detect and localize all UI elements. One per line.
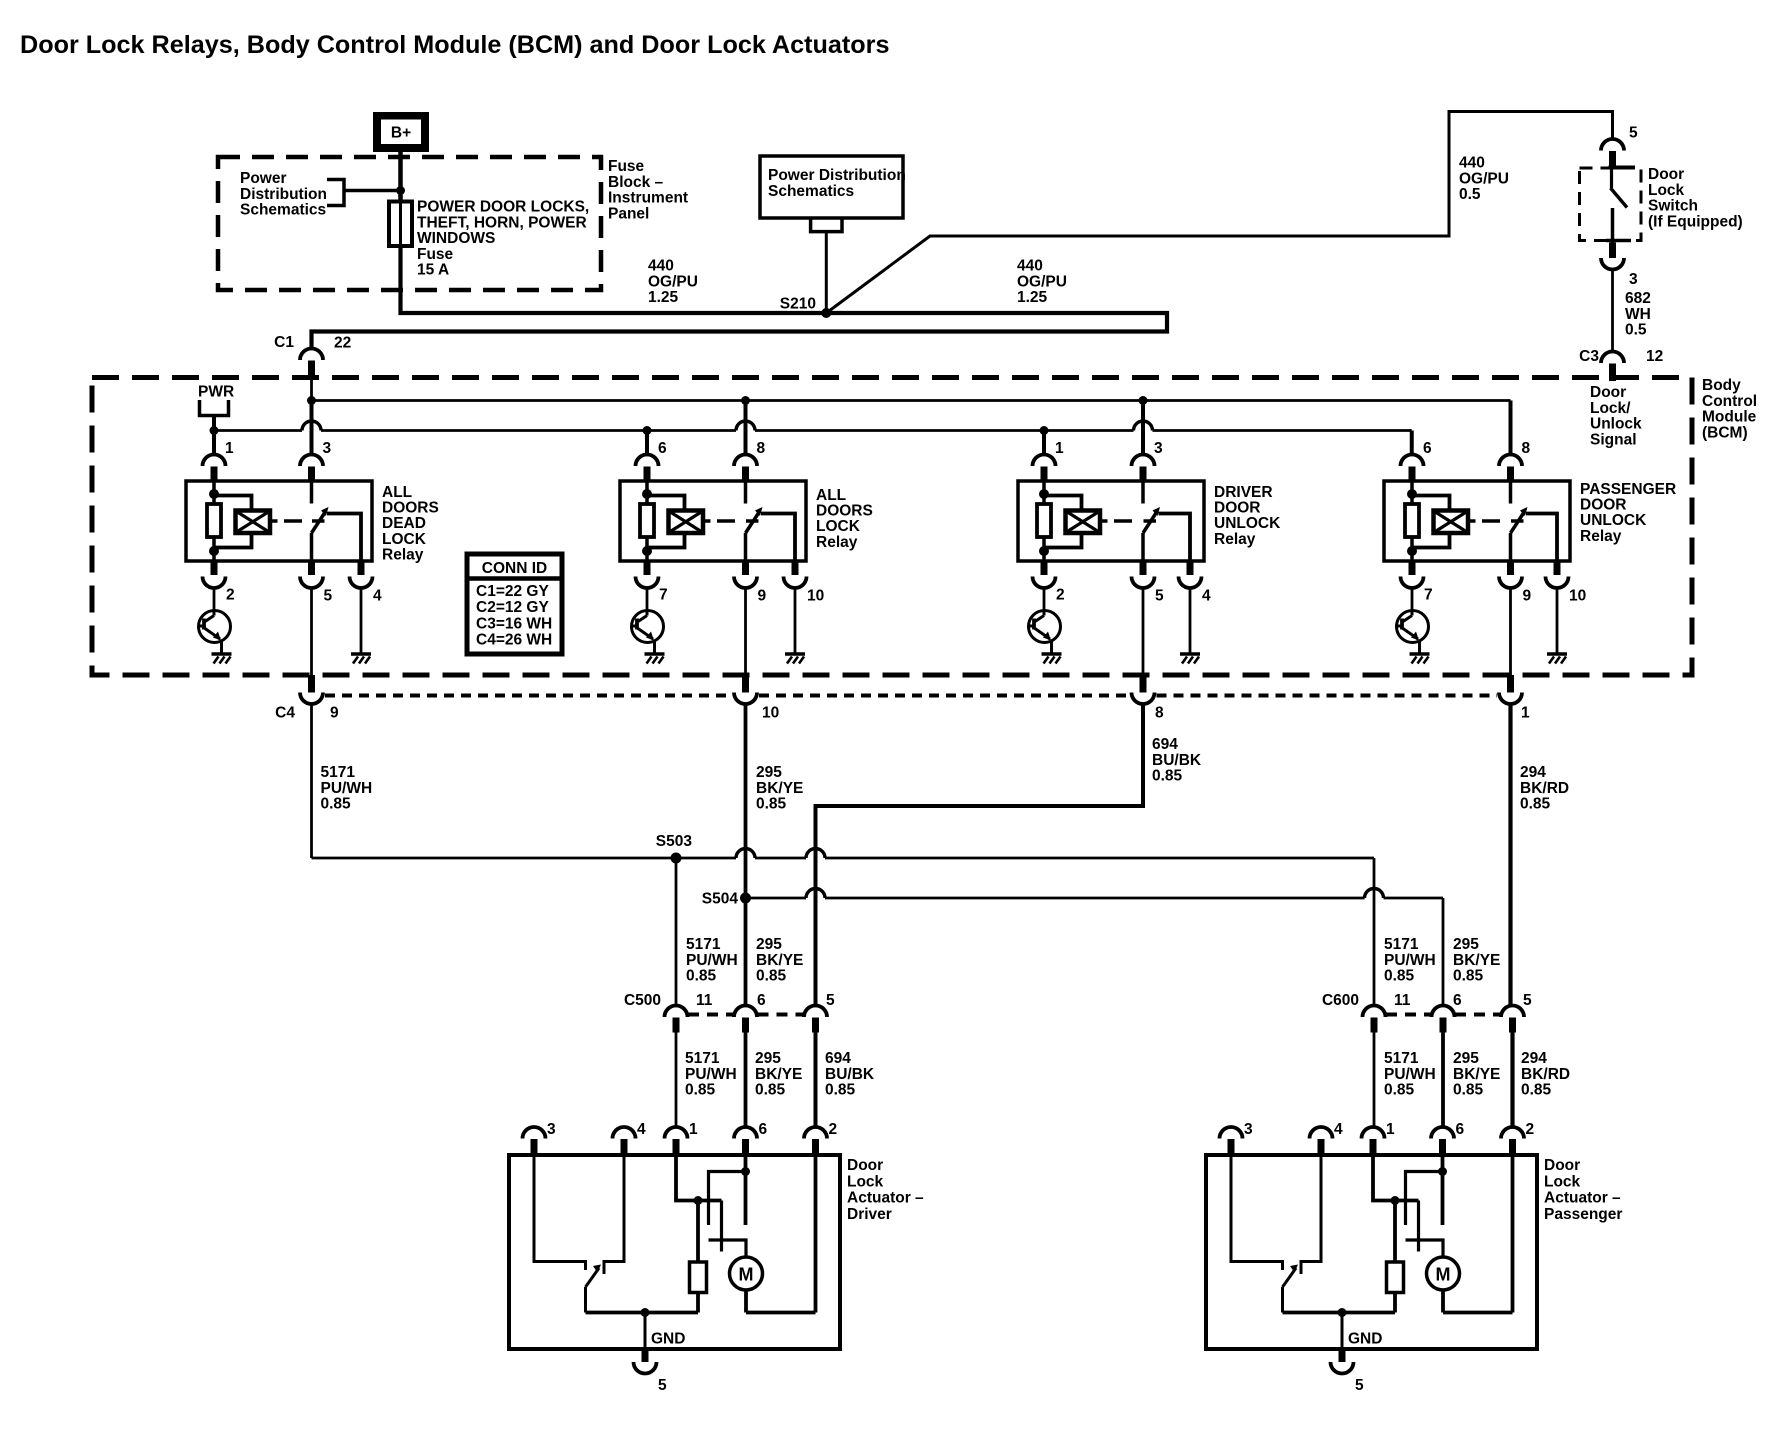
- svg-text:PU/WH: PU/WH: [1384, 952, 1436, 969]
- relay K1 all doors dead lock relay box: [186, 481, 372, 561]
- relay K1 contact ground wire: [360, 587, 363, 654]
- svg-text:Relay: Relay: [816, 534, 858, 551]
- svg-text:Block –: Block –: [608, 174, 664, 191]
- svg-text:5171: 5171: [1384, 936, 1419, 953]
- relay K2 switch fixed contact: [744, 481, 748, 504]
- all doors lock relay pin 6 connector: [636, 455, 659, 467]
- relay K4 passenger door unlock relay box: [1384, 481, 1570, 561]
- svg-text:0.85: 0.85: [755, 1082, 786, 1099]
- svg-text:4: 4: [1202, 588, 1211, 605]
- connector C1 pin 22: [300, 349, 323, 361]
- driver door lock actuator transistor collector: [534, 1155, 586, 1270]
- passenger door lock actuator feed wire from pin 1: [1373, 1155, 1419, 1201]
- svg-text:C1: C1: [274, 334, 294, 351]
- svg-text:9: 9: [1523, 588, 1532, 605]
- passenger door unlock relay pin 6 connector: [1401, 455, 1424, 467]
- svg-text:C4=26 WH: C4=26 WH: [476, 632, 552, 649]
- connector C600 dashed line: [1386, 1013, 1431, 1017]
- relay K2 coil loop: [647, 496, 685, 548]
- svg-text:UNLOCK: UNLOCK: [1214, 515, 1281, 532]
- relay K3 switch fixed contact: [1141, 481, 1145, 504]
- svg-text:C4: C4: [275, 705, 295, 722]
- wire C500-5 to actuator: [814, 1033, 818, 1128]
- relay K1 coil wire: [212, 481, 216, 504]
- wire 694 BU/BK from C4-8: [816, 704, 1144, 1006]
- connector C600 pin 5: [1501, 1006, 1524, 1018]
- svg-text:11: 11: [696, 992, 713, 1009]
- wire C600-6 to actuator: [1441, 1033, 1445, 1128]
- wire 440 OG/PU from fuse to C1 (with return loop): [312, 246, 1168, 349]
- junction dot at fuse top: [396, 186, 405, 195]
- svg-text:294: 294: [1521, 1050, 1547, 1067]
- svg-text:2: 2: [1526, 1121, 1535, 1138]
- svg-text:6: 6: [1453, 992, 1462, 1009]
- wire C600-5 to actuator: [1510, 1033, 1514, 1128]
- svg-text:694: 694: [825, 1050, 851, 1067]
- svg-text:Driver: Driver: [847, 1206, 892, 1223]
- svg-text:Door Lock Relays, Body Control: Door Lock Relays, Body Control Module (B…: [20, 31, 890, 59]
- connector C600 pin 6: [1432, 1006, 1455, 1018]
- wire bus B to K2 pin 6: [645, 431, 649, 455]
- relay K3 actuation dashed link: [1114, 519, 1132, 523]
- passenger door lock actuator pin 4 connector: [1310, 1127, 1333, 1139]
- svg-text:0.85: 0.85: [1453, 968, 1484, 985]
- relay K4 actuation dashed link: [1482, 519, 1500, 523]
- svg-text:BK/YE: BK/YE: [756, 952, 803, 969]
- BCM door lock feed bus (upper): [312, 399, 1511, 402]
- relay K3 driver transistor Q: [1029, 611, 1061, 643]
- relay K3 coil junction dots: [1039, 489, 1049, 499]
- svg-text:1: 1: [689, 1121, 698, 1138]
- relay K2 switch blade: [746, 512, 760, 534]
- wire bus A to K4 pin 8: [1509, 401, 1513, 455]
- svg-text:DOORS: DOORS: [816, 503, 873, 520]
- bracket below power distribution box: [811, 218, 842, 232]
- svg-text:694: 694: [1152, 736, 1178, 753]
- svg-text:1: 1: [1055, 440, 1064, 457]
- driver door lock actuator transistor base: [604, 1155, 624, 1274]
- svg-text:5: 5: [1355, 1377, 1364, 1394]
- svg-text:Body: Body: [1702, 377, 1741, 394]
- PWR bracket: [200, 400, 229, 416]
- svg-text:0.85: 0.85: [685, 1082, 716, 1099]
- relay K3 driver door unlock relay box: [1018, 481, 1204, 561]
- svg-text:DOORS: DOORS: [382, 500, 439, 517]
- wire bus B to K1 pin 1: [212, 431, 216, 455]
- driver door lock actuator ground pin 5 connector: [642, 1349, 649, 1362]
- svg-text:Power: Power: [240, 170, 287, 187]
- svg-text:0.85: 0.85: [1152, 768, 1183, 785]
- relay K4 driver transistor Q: [1397, 611, 1429, 643]
- all doors lock relay pin 8 connector: [734, 455, 757, 467]
- junction dot bus A at relay K3: [1139, 396, 1148, 405]
- svg-text:6: 6: [1423, 440, 1432, 457]
- passenger door unlock relay pin 10 connector: [1554, 561, 1561, 575]
- relay K2 transistor ground: [645, 652, 665, 656]
- svg-text:Switch: Switch: [1648, 198, 1698, 215]
- svg-text:Module: Module: [1702, 409, 1757, 426]
- svg-text:PU/WH: PU/WH: [1384, 1066, 1436, 1083]
- svg-text:(If Equipped): (If Equipped): [1648, 213, 1743, 230]
- relay K2 contact ground wire: [794, 587, 797, 654]
- driver door lock actuator motor ground wire: [744, 1290, 748, 1313]
- passenger door lock actuator bottom rail left: [1283, 1311, 1396, 1315]
- door lock switch fixed terminal: [1610, 168, 1613, 189]
- svg-text:WH: WH: [1625, 306, 1651, 323]
- svg-text:Lock: Lock: [847, 1173, 884, 1190]
- svg-text:BK/YE: BK/YE: [1453, 952, 1500, 969]
- driver door lock actuator pin 1 connector: [665, 1127, 688, 1139]
- relay K3 contact ground: [1180, 652, 1200, 656]
- svg-text:295: 295: [1453, 1050, 1479, 1067]
- passenger door lock actuator ground pin 5 connector: [1339, 1349, 1346, 1362]
- door lock switch pin 5 connector: [1601, 139, 1624, 151]
- svg-text:3: 3: [1154, 440, 1163, 457]
- CONN ID table: [467, 554, 562, 654]
- svg-text:M: M: [739, 1265, 754, 1285]
- svg-text:3: 3: [323, 440, 332, 457]
- svg-text:GND: GND: [651, 1331, 685, 1348]
- driver door lock actuator bottom rail left: [586, 1311, 699, 1315]
- wire 295 BK/YE from C4-10: [744, 704, 748, 1006]
- passenger door lock actuator pin 2 wire: [1511, 1155, 1515, 1313]
- svg-text:BU/BK: BU/BK: [825, 1066, 875, 1083]
- door lock switch blade: [1611, 188, 1628, 208]
- svg-text:1: 1: [1521, 705, 1530, 722]
- relay K1 transistor ground: [212, 652, 232, 656]
- svg-text:PU/WH: PU/WH: [686, 952, 738, 969]
- svg-text:0.85: 0.85: [1520, 796, 1551, 813]
- passenger door lock actuator switch contact B: [1406, 1172, 1443, 1226]
- svg-text:Schematics: Schematics: [768, 183, 854, 200]
- relay K4 switch blade: [1511, 512, 1525, 534]
- relay K4 coil element: [1405, 504, 1419, 537]
- driver door lock actuator box: [509, 1155, 840, 1349]
- svg-text:295: 295: [1453, 936, 1479, 953]
- door lock switch dashed box: [1580, 168, 1642, 241]
- svg-text:0.5: 0.5: [1625, 322, 1647, 339]
- svg-text:BK/YE: BK/YE: [1453, 1066, 1500, 1083]
- svg-text:C1=22 GY: C1=22 GY: [476, 583, 549, 600]
- passenger door lock actuator pin 1 connector: [1362, 1127, 1385, 1139]
- relay K1 switch blade: [312, 512, 326, 534]
- wire 5171 branch to C500-11: [675, 858, 678, 1006]
- wire hop S504 line over 5171: [1365, 889, 1384, 899]
- splice S504: [740, 893, 751, 904]
- wire power distribution stem to S210: [825, 232, 828, 313]
- connector C4 pin 9: [310, 587, 313, 675]
- svg-text:8: 8: [757, 440, 766, 457]
- relay K3 actuator crossed box: [1066, 511, 1101, 534]
- passenger door lock actuator ground pin wire: [1341, 1313, 1344, 1350]
- junction dot PWR on bus: [210, 426, 219, 435]
- svg-text:BK/YE: BK/YE: [755, 1066, 802, 1083]
- svg-text:ALL: ALL: [816, 487, 846, 504]
- svg-text:Lock: Lock: [1648, 182, 1685, 199]
- relay K3 switch NO contact wire: [1159, 514, 1191, 562]
- svg-text:5: 5: [324, 588, 333, 605]
- relay K2 all doors lock relay box: [620, 481, 806, 561]
- passenger door lock actuator bottom rail right: [1443, 1311, 1513, 1315]
- driver door lock actuator pin 2 wire: [814, 1155, 818, 1313]
- svg-text:Door: Door: [847, 1157, 883, 1174]
- svg-text:BK/RD: BK/RD: [1520, 780, 1569, 797]
- svg-text:5171: 5171: [321, 764, 356, 781]
- wire hop K3 pin3 over PWR bus: [1134, 421, 1153, 431]
- relay K1 switch NO contact wire: [327, 514, 361, 562]
- BCM PWR bus (lower): [214, 429, 302, 432]
- relay K1 coil loop: [214, 496, 252, 548]
- passenger door lock actuator switch contact A: [1417, 1201, 1420, 1252]
- svg-text:10: 10: [762, 705, 779, 722]
- connector C600 pin 11: [1363, 1006, 1386, 1018]
- svg-text:Fuse: Fuse: [608, 158, 645, 175]
- all doors dead lock relay pin 4 connector: [358, 561, 365, 575]
- svg-text:PU/WH: PU/WH: [321, 780, 373, 797]
- svg-text:Unlock: Unlock: [1590, 416, 1642, 433]
- passenger door lock actuator pin 3 connector: [1220, 1127, 1243, 1139]
- wire B+ to fuse: [398, 152, 403, 202]
- svg-text:1.25: 1.25: [1017, 289, 1048, 306]
- connector C500 pin 5: [804, 1006, 827, 1018]
- svg-text:DOOR: DOOR: [1580, 497, 1627, 514]
- driver door lock actuator pin 6 connector: [734, 1127, 757, 1139]
- svg-text:Fuse: Fuse: [417, 246, 454, 263]
- relay K4 coil loop: [1412, 496, 1450, 548]
- relay K1 driver wire: [213, 587, 216, 611]
- passenger door unlock relay pin 8 connector: [1499, 455, 1522, 467]
- svg-text:5: 5: [658, 1377, 667, 1394]
- svg-text:10: 10: [1569, 588, 1586, 605]
- driver door unlock relay pin 4 connector: [1187, 561, 1194, 575]
- relay K2 driver transistor Q: [632, 611, 664, 643]
- svg-text:10: 10: [807, 588, 824, 605]
- passenger door lock actuator switch bar: [1406, 1240, 1444, 1258]
- svg-text:12: 12: [1646, 348, 1663, 365]
- svg-text:POWER DOOR LOCKS,: POWER DOOR LOCKS,: [417, 199, 589, 216]
- driver door lock actuator pin 2 connector: [804, 1127, 827, 1139]
- passenger door lock actuator motor ground wire: [1441, 1290, 1445, 1313]
- svg-text:4: 4: [373, 588, 382, 605]
- wire bus B to K3 pin 1: [1042, 431, 1046, 455]
- relay K3 transistor ground: [1042, 652, 1062, 656]
- svg-text:295: 295: [756, 936, 782, 953]
- relay K1 actuator crossed box: [236, 511, 271, 534]
- svg-text:0.85: 0.85: [1384, 1082, 1415, 1099]
- passenger door lock actuator resistor: [1387, 1262, 1404, 1293]
- relay K4 driver wire: [1411, 587, 1414, 611]
- power distribution schematics box: [760, 156, 903, 218]
- svg-text:2: 2: [226, 587, 235, 604]
- svg-text:UNLOCK: UNLOCK: [1580, 512, 1647, 529]
- driver door unlock relay pin 5 connector: [1140, 561, 1147, 575]
- wire S504 branch to passenger: [746, 897, 807, 900]
- svg-text:8: 8: [1155, 705, 1164, 722]
- passenger door lock actuator junction dot pin6: [1438, 1167, 1447, 1176]
- all doors dead lock relay pin 3 connector: [300, 455, 323, 467]
- driver door lock actuator resistor: [690, 1262, 707, 1293]
- passenger door lock actuator transistor collector: [1231, 1155, 1283, 1270]
- svg-text:9: 9: [758, 588, 767, 605]
- relay K4 switch NO contact wire: [1526, 514, 1557, 562]
- connector C500 dashed line: [688, 1013, 734, 1017]
- relay K2 switch common wire: [744, 533, 748, 561]
- all doors lock relay pin 10 connector: [792, 561, 799, 575]
- svg-text:M: M: [1436, 1265, 1451, 1285]
- wire C500-6 to actuator: [744, 1033, 748, 1128]
- svg-text:295: 295: [755, 1050, 781, 1067]
- svg-text:Signal: Signal: [1590, 431, 1637, 448]
- bracket to power distribution note: [327, 180, 344, 206]
- junction dot bus A at C1: [307, 396, 316, 405]
- svg-text:6: 6: [759, 1121, 768, 1138]
- relay K2 actuator crossed box: [669, 511, 704, 534]
- driver door lock actuator feed wire from pin 1: [676, 1155, 722, 1201]
- door lock switch top contact: [1609, 166, 1636, 170]
- passenger door lock actuator junction dot pin1: [1391, 1196, 1400, 1205]
- svg-text:C3: C3: [1579, 348, 1599, 365]
- relay K4 coil wire: [1410, 481, 1414, 504]
- svg-text:C600: C600: [1322, 992, 1359, 1009]
- svg-text:BK/RD: BK/RD: [1521, 1066, 1570, 1083]
- svg-text:1: 1: [1386, 1121, 1395, 1138]
- driver door lock actuator pin 3 connector: [523, 1127, 546, 1139]
- wire C600-11 to actuator: [1373, 1033, 1376, 1128]
- svg-text:0.85: 0.85: [686, 968, 717, 985]
- svg-text:Panel: Panel: [608, 205, 649, 222]
- passenger door lock actuator motor M: [1427, 1257, 1460, 1290]
- relay K4 transistor ground: [1410, 652, 1430, 656]
- connector C3 pin 12: [1601, 352, 1624, 364]
- passenger door lock actuator box: [1206, 1155, 1537, 1349]
- svg-text:S504: S504: [702, 891, 739, 908]
- svg-text:WINDOWS: WINDOWS: [417, 230, 495, 247]
- driver door lock actuator switch contact B: [709, 1172, 746, 1226]
- wire C500-11 to actuator: [675, 1033, 678, 1128]
- svg-text:3: 3: [547, 1121, 556, 1138]
- wire bus A to K1 pin 3: [310, 401, 314, 455]
- driver door lock actuator junction dot pin6: [741, 1167, 750, 1176]
- svg-text:5: 5: [1155, 588, 1164, 605]
- junction dot bus B at relay K3: [1040, 426, 1049, 435]
- svg-text:5171: 5171: [685, 1050, 720, 1067]
- driver door lock actuator motor M: [730, 1257, 763, 1290]
- driver door unlock relay pin 2 connector: [1041, 561, 1048, 575]
- driver door lock actuator switch bar: [709, 1240, 747, 1258]
- relay K2 coil element: [640, 504, 654, 537]
- passenger door unlock relay pin 9 connector: [1507, 561, 1514, 575]
- svg-text:Door: Door: [1648, 166, 1684, 183]
- all doors lock relay pin 7 connector: [644, 561, 651, 575]
- svg-text:3: 3: [1629, 271, 1638, 288]
- relay K2 coil wire: [645, 481, 649, 504]
- svg-text:OG/PU: OG/PU: [1017, 273, 1067, 290]
- splice S210: [821, 308, 831, 318]
- connector C4 pin 1: [1509, 587, 1512, 675]
- wire 5171 PU/WH from C4-9: [310, 704, 313, 858]
- wire hop K1 pin3 over PWR bus: [302, 421, 321, 431]
- relay K3 switch blade: [1143, 512, 1157, 534]
- driver door lock actuator switch contact A: [720, 1201, 723, 1252]
- connector C500 pin 11: [665, 1006, 688, 1018]
- svg-text:2: 2: [829, 1121, 838, 1138]
- svg-text:BK/YE: BK/YE: [756, 780, 803, 797]
- svg-text:C2=12 GY: C2=12 GY: [476, 599, 549, 616]
- passenger door lock actuator pin 6 wire: [1441, 1155, 1445, 1225]
- wire PWR stem: [212, 416, 216, 431]
- relay K4 contact ground wire: [1556, 587, 1559, 654]
- connector C500 pin 6: [734, 1006, 757, 1018]
- svg-text:4: 4: [1334, 1121, 1343, 1138]
- fuse F 15A: [389, 202, 412, 247]
- svg-text:5: 5: [826, 992, 835, 1009]
- driver door lock actuator pin 4 connector: [613, 1127, 636, 1139]
- svg-text:Passenger: Passenger: [1544, 1206, 1622, 1223]
- wire hop S503 line over 694: [806, 849, 825, 859]
- svg-text:0.85: 0.85: [321, 796, 352, 813]
- relay K1 coil element: [207, 504, 221, 537]
- door lock switch lower terminal: [1611, 208, 1615, 243]
- svg-text:1.25: 1.25: [648, 289, 679, 306]
- wire bus A to K2 pin 8: [744, 401, 748, 455]
- relay K4 actuator crossed box: [1434, 511, 1469, 534]
- svg-text:B+: B+: [391, 125, 411, 142]
- wire hop S503 line over 295: [736, 849, 755, 859]
- svg-text:682: 682: [1625, 290, 1651, 307]
- svg-text:440: 440: [1459, 155, 1485, 172]
- relay K3 coil loop: [1044, 496, 1082, 548]
- svg-text:15 A: 15 A: [417, 262, 449, 279]
- wire hop S504 line over 694: [806, 889, 825, 899]
- splice S503: [671, 853, 682, 864]
- svg-text:DOOR: DOOR: [1214, 500, 1261, 517]
- svg-text:3: 3: [1244, 1121, 1253, 1138]
- relay K1 driver transistor Q: [199, 611, 231, 643]
- junction dot bus B at relay K2: [643, 426, 652, 435]
- relay K2 actuation dashed link: [717, 519, 735, 523]
- driver door lock actuator GND junction dot: [641, 1308, 650, 1317]
- svg-text:0.85: 0.85: [1521, 1082, 1552, 1099]
- svg-text:5: 5: [1523, 992, 1532, 1009]
- wire bus B to K4 pin 6: [1410, 431, 1414, 455]
- relay K4 coil junction dots: [1407, 489, 1417, 499]
- svg-text:THEFT, HORN, POWER: THEFT, HORN, POWER: [417, 214, 587, 231]
- svg-text:0.85: 0.85: [1384, 968, 1415, 985]
- passenger door lock actuator GND junction dot: [1338, 1308, 1347, 1317]
- svg-text:Actuator –: Actuator –: [847, 1190, 924, 1207]
- connector C4 pin 10: [744, 587, 747, 675]
- svg-text:(BCM): (BCM): [1702, 424, 1748, 441]
- wire C1-22 into BCM: [310, 376, 313, 401]
- passenger door lock actuator resistor wire: [1393, 1201, 1397, 1263]
- svg-text:Control: Control: [1702, 393, 1757, 410]
- passenger door lock actuator pin 6 connector: [1431, 1127, 1454, 1139]
- driver door unlock relay pin 1 connector: [1033, 455, 1056, 467]
- driver door unlock relay pin 3 connector: [1132, 455, 1155, 467]
- svg-text:6: 6: [1456, 1121, 1465, 1138]
- svg-text:0.85: 0.85: [1453, 1082, 1484, 1099]
- svg-text:Lock: Lock: [1544, 1173, 1581, 1190]
- svg-text:Door: Door: [1544, 1157, 1580, 1174]
- svg-text:ALL: ALL: [382, 484, 412, 501]
- relay K3 coil wire: [1042, 481, 1046, 504]
- svg-text:Relay: Relay: [1214, 531, 1256, 548]
- driver door lock actuator transistor emitter: [586, 1268, 600, 1287]
- svg-text:440: 440: [1017, 258, 1043, 275]
- svg-text:7: 7: [659, 587, 668, 604]
- svg-text:BU/BK: BU/BK: [1152, 752, 1202, 769]
- passenger door lock actuator transistor emitter: [1283, 1268, 1297, 1287]
